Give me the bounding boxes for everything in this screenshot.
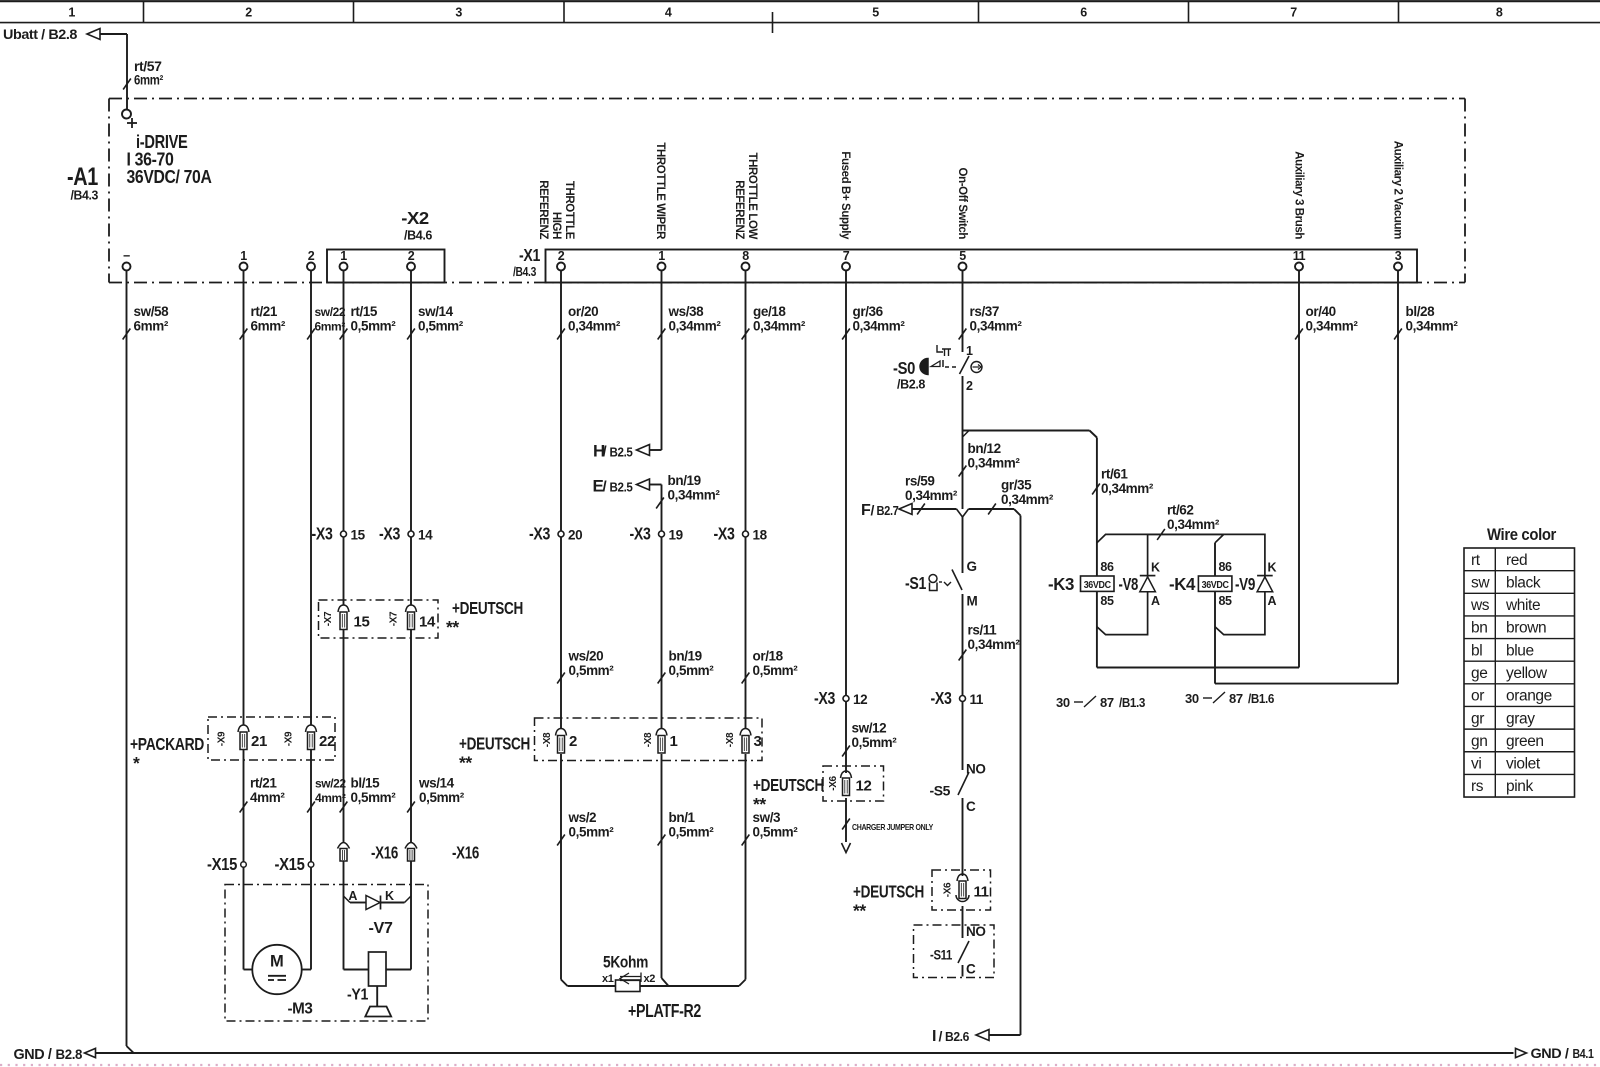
- svg-text:-X8: -X8: [725, 732, 736, 747]
- svg-text:B2.5: B2.5: [610, 481, 633, 495]
- svg-text:rt/61: rt/61: [1101, 467, 1128, 482]
- svg-text:ge: ge: [1471, 665, 1487, 682]
- svg-text:vi: vi: [1471, 756, 1481, 773]
- svg-text:-X3: -X3: [312, 524, 334, 544]
- svg-text:green: green: [1506, 733, 1544, 750]
- svg-text:-V8: -V8: [1119, 574, 1139, 594]
- svg-text:18: 18: [753, 528, 768, 543]
- svg-text:gn: gn: [1471, 733, 1487, 750]
- svg-text:3: 3: [754, 733, 762, 750]
- svg-text:M: M: [270, 953, 283, 971]
- svg-text:Auxiliary 3 Brush: Auxiliary 3 Brush: [1293, 151, 1305, 239]
- svg-text:bl/28: bl/28: [1406, 304, 1436, 319]
- svg-text:/B2.8: /B2.8: [897, 378, 925, 392]
- svg-text:-S5: -S5: [930, 784, 951, 799]
- svg-text:bn/19: bn/19: [668, 473, 701, 488]
- svg-text:-X3: -X3: [379, 524, 401, 544]
- svg-text:0,34mm²: 0,34mm²: [853, 319, 906, 334]
- svg-text:-X3: -X3: [931, 688, 953, 708]
- svg-text:1: 1: [240, 249, 247, 263]
- svg-text:sw/22: sw/22: [315, 777, 346, 791]
- svg-text:GND /: GND /: [14, 1046, 53, 1063]
- svg-text:1: 1: [670, 733, 678, 750]
- svg-text:-X9: -X9: [284, 731, 295, 746]
- svg-text:THROTTLE WIPER: THROTTLE WIPER: [654, 142, 666, 240]
- svg-text:NO: NO: [966, 762, 985, 777]
- svg-text:-S0: -S0: [893, 358, 916, 378]
- svg-text:K: K: [1151, 561, 1160, 575]
- svg-text:3: 3: [455, 6, 462, 20]
- svg-text:rs/37: rs/37: [970, 304, 1000, 319]
- svg-text:rs: rs: [1471, 778, 1484, 795]
- svg-text:I: I: [932, 1028, 936, 1045]
- svg-text:6mm²: 6mm²: [134, 73, 164, 88]
- svg-text:0,5mm²: 0,5mm²: [569, 825, 615, 840]
- svg-text:+PLATF-R2: +PLATF-R2: [628, 1001, 701, 1021]
- svg-text:rt/21: rt/21: [250, 776, 277, 791]
- svg-text:0,34mm²: 0,34mm²: [1101, 481, 1154, 496]
- svg-text:86: 86: [1219, 560, 1233, 574]
- svg-text:2: 2: [966, 379, 973, 393]
- svg-text:/: /: [939, 1028, 943, 1044]
- svg-text:-X1: -X1: [519, 245, 541, 265]
- svg-text:sw: sw: [1471, 574, 1490, 591]
- svg-text:black: black: [1506, 574, 1541, 591]
- svg-text:87: 87: [1229, 691, 1243, 706]
- svg-text:0,34mm²: 0,34mm²: [669, 319, 722, 334]
- svg-text:or/20: or/20: [568, 304, 598, 319]
- svg-text:/B4.6: /B4.6: [404, 229, 432, 243]
- svg-text:+DEUTSCH: +DEUTSCH: [753, 775, 824, 795]
- svg-text:sw/22: sw/22: [315, 305, 346, 319]
- svg-text:-Y1: -Y1: [347, 987, 368, 1004]
- svg-text:-X15: -X15: [207, 854, 238, 874]
- svg-text:ws/2: ws/2: [568, 810, 597, 825]
- svg-text:ws/20: ws/20: [568, 649, 604, 664]
- svg-text:1: 1: [340, 249, 347, 263]
- svg-text:0,5mm²: 0,5mm²: [669, 663, 715, 678]
- svg-text:bl/15: bl/15: [351, 776, 381, 791]
- svg-text:8: 8: [742, 249, 749, 263]
- svg-text:ws/14: ws/14: [418, 776, 455, 791]
- svg-text:rt/15: rt/15: [351, 304, 378, 319]
- svg-text:blue: blue: [1506, 642, 1534, 659]
- svg-text:-K4: -K4: [1169, 574, 1196, 594]
- svg-text:19: 19: [669, 528, 683, 543]
- svg-text:+DEUTSCH: +DEUTSCH: [853, 882, 924, 902]
- svg-text:G: G: [967, 559, 977, 574]
- svg-text:1: 1: [658, 249, 665, 263]
- svg-text:-X8: -X8: [643, 732, 654, 747]
- svg-text:pink: pink: [1506, 778, 1533, 795]
- svg-text:87: 87: [1100, 695, 1114, 710]
- svg-text:30: 30: [1185, 691, 1199, 706]
- svg-text:-X3: -X3: [714, 524, 736, 544]
- svg-text:85: 85: [1219, 594, 1233, 608]
- svg-text:20: 20: [568, 528, 582, 543]
- svg-text:2: 2: [408, 249, 415, 263]
- svg-text:REFERENZ: REFERENZ: [537, 180, 549, 239]
- svg-text:4mm²: 4mm²: [250, 790, 285, 805]
- svg-text:15: 15: [351, 528, 366, 543]
- svg-text:x2: x2: [644, 973, 656, 985]
- svg-text:15: 15: [354, 614, 370, 631]
- svg-text:REFERENZ: REFERENZ: [733, 180, 745, 239]
- svg-text:7: 7: [843, 249, 850, 263]
- svg-text:30: 30: [1056, 695, 1070, 710]
- svg-text:6mm²: 6mm²: [134, 319, 169, 334]
- svg-text:0,34mm²: 0,34mm²: [668, 488, 721, 503]
- svg-text:CHARGER JUMPER ONLY: CHARGER JUMPER ONLY: [852, 822, 934, 832]
- svg-text:**: **: [853, 901, 866, 921]
- svg-text:ws: ws: [1470, 597, 1490, 614]
- svg-text:0,5mm²: 0,5mm²: [351, 319, 397, 334]
- svg-text:36VDC: 36VDC: [1084, 580, 1111, 591]
- svg-text:gray: gray: [1506, 710, 1535, 727]
- svg-text:0,5mm²: 0,5mm²: [351, 790, 397, 805]
- svg-text:11: 11: [1293, 249, 1306, 263]
- svg-text:A: A: [1268, 594, 1277, 608]
- svg-text:86: 86: [1100, 560, 1114, 574]
- svg-text:gr: gr: [1471, 710, 1484, 727]
- svg-text:+DEUTSCH: +DEUTSCH: [452, 598, 523, 618]
- svg-text:0,5mm²: 0,5mm²: [753, 825, 799, 840]
- svg-text:6mm²: 6mm²: [251, 319, 286, 334]
- svg-text:0,34mm²: 0,34mm²: [1001, 492, 1054, 507]
- svg-text:/B4.3: /B4.3: [513, 265, 536, 279]
- svg-text:0,34mm²: 0,34mm²: [1167, 517, 1220, 532]
- svg-text:K: K: [1268, 561, 1277, 575]
- svg-text:HIGH: HIGH: [550, 212, 562, 239]
- svg-text:or: or: [1471, 688, 1484, 705]
- svg-text:B2.6: B2.6: [945, 1030, 969, 1044]
- svg-text:36VDC/ 70A: 36VDC/ 70A: [127, 166, 212, 187]
- svg-text:2: 2: [558, 249, 565, 263]
- svg-text:-S1: -S1: [905, 573, 927, 593]
- svg-text:/B1.6: /B1.6: [1248, 692, 1274, 706]
- svg-text:sw/14: sw/14: [418, 304, 454, 319]
- svg-text:3: 3: [1395, 249, 1402, 263]
- svg-text:-K3: -K3: [1048, 574, 1075, 594]
- svg-text:0,34mm²: 0,34mm²: [1406, 319, 1459, 334]
- svg-text:Wire color: Wire color: [1487, 526, 1557, 544]
- svg-text:F: F: [861, 502, 871, 519]
- svg-text:or/40: or/40: [1306, 304, 1336, 319]
- svg-text:-X2: -X2: [401, 208, 429, 228]
- svg-text:-A1: -A1: [67, 163, 98, 191]
- svg-text:11: 11: [974, 884, 989, 901]
- svg-text:white: white: [1505, 597, 1540, 614]
- svg-text:/B4.3: /B4.3: [71, 189, 99, 203]
- svg-text:0,5mm²: 0,5mm²: [569, 663, 615, 678]
- svg-text:*: *: [133, 753, 140, 773]
- svg-text:12: 12: [853, 692, 867, 707]
- svg-text:0,5mm²: 0,5mm²: [669, 825, 715, 840]
- svg-text:+DEUTSCH: +DEUTSCH: [459, 734, 530, 754]
- svg-text:**: **: [753, 794, 766, 814]
- svg-text:0,34mm²: 0,34mm²: [968, 637, 1021, 652]
- svg-text:orange: orange: [1506, 688, 1552, 705]
- svg-text:/: /: [871, 502, 875, 518]
- svg-text:A: A: [348, 889, 357, 903]
- svg-text:21: 21: [251, 733, 267, 750]
- svg-text:ge/18: ge/18: [753, 304, 786, 319]
- svg-text:gr/35: gr/35: [1001, 478, 1032, 493]
- svg-text:Auxiliary 2 Vacuum: Auxiliary 2 Vacuum: [1392, 141, 1404, 239]
- svg-text:/B1.3: /B1.3: [1119, 696, 1145, 710]
- svg-text:bl: bl: [1471, 642, 1482, 659]
- svg-text:0,34mm²: 0,34mm²: [970, 319, 1023, 334]
- svg-text:-V9: -V9: [1235, 574, 1256, 594]
- svg-text:-X15: -X15: [275, 854, 306, 874]
- svg-text:0,34mm²: 0,34mm²: [568, 319, 621, 334]
- svg-text:-V7: -V7: [369, 920, 394, 937]
- svg-text:7: 7: [1290, 6, 1297, 20]
- svg-text:bn/19: bn/19: [669, 649, 702, 664]
- svg-text:B4.1: B4.1: [1573, 1047, 1594, 1061]
- svg-text:rt/62: rt/62: [1167, 503, 1194, 518]
- svg-text:14: 14: [419, 614, 436, 631]
- svg-text:bn: bn: [1471, 620, 1487, 637]
- svg-text:-X7: -X7: [323, 611, 334, 626]
- svg-text:brown: brown: [1506, 620, 1546, 637]
- svg-text:yellow: yellow: [1506, 665, 1548, 682]
- svg-text:-X3: -X3: [814, 688, 836, 708]
- svg-text:rs/59: rs/59: [905, 474, 935, 489]
- svg-text:B2.7: B2.7: [877, 504, 899, 518]
- svg-text:0,5mm²: 0,5mm²: [419, 790, 465, 805]
- svg-text:+PACKARD: +PACKARD: [130, 734, 204, 754]
- svg-text:0,34mm²: 0,34mm²: [753, 319, 806, 334]
- svg-text:sw/58: sw/58: [134, 304, 170, 319]
- svg-text:5: 5: [872, 6, 879, 20]
- svg-text:-X16: -X16: [452, 843, 480, 863]
- svg-text:11: 11: [970, 692, 984, 707]
- svg-text:-M3: -M3: [288, 1001, 314, 1018]
- svg-text:6: 6: [1080, 6, 1087, 20]
- svg-text:−: −: [123, 249, 130, 263]
- svg-text:rs/11: rs/11: [968, 623, 998, 638]
- svg-text:85: 85: [1100, 594, 1114, 608]
- svg-text:0,5mm²: 0,5mm²: [753, 663, 799, 678]
- svg-text:1: 1: [966, 344, 973, 358]
- svg-text:0,5mm²: 0,5mm²: [418, 319, 464, 334]
- svg-text:sw/12: sw/12: [852, 721, 887, 736]
- svg-text:22: 22: [319, 733, 335, 750]
- svg-text:36VDC: 36VDC: [1202, 580, 1229, 591]
- svg-text:4mm²: 4mm²: [315, 791, 346, 805]
- svg-text:THROTTLE LOW: THROTTLE LOW: [746, 152, 758, 239]
- svg-text:GND /: GND /: [1531, 1045, 1570, 1061]
- svg-text:6mm²: 6mm²: [315, 320, 346, 334]
- svg-text:M: M: [967, 594, 978, 609]
- svg-text:0,5mm²: 0,5mm²: [852, 735, 898, 750]
- svg-text:-X7: -X7: [389, 611, 400, 626]
- svg-text:12: 12: [856, 778, 872, 795]
- svg-text:0,34mm²: 0,34mm²: [905, 488, 958, 503]
- svg-text:5: 5: [959, 249, 966, 263]
- svg-text:B2.5: B2.5: [610, 446, 633, 460]
- svg-text:4: 4: [665, 6, 672, 20]
- svg-text:-X9: -X9: [217, 731, 228, 746]
- svg-text:A: A: [1151, 594, 1160, 608]
- svg-text:-S11: -S11: [930, 948, 953, 963]
- svg-text:-X8: -X8: [542, 732, 553, 747]
- svg-text:-X3: -X3: [529, 524, 551, 544]
- svg-text:bn/12: bn/12: [968, 441, 1001, 456]
- svg-text:THROTTLE: THROTTLE: [563, 181, 575, 240]
- svg-text:On-Off Switch: On-Off Switch: [956, 168, 968, 240]
- svg-text:-X6: -X6: [943, 882, 954, 897]
- svg-text:K: K: [385, 889, 394, 903]
- svg-text:1: 1: [68, 6, 75, 20]
- svg-text:-X3: -X3: [630, 524, 652, 544]
- svg-text:**: **: [459, 753, 472, 773]
- svg-text:or/18: or/18: [753, 649, 784, 664]
- svg-text:violet: violet: [1506, 756, 1541, 773]
- svg-text:C: C: [966, 799, 976, 814]
- svg-text:**: **: [446, 617, 459, 637]
- svg-text:ws/38: ws/38: [668, 304, 705, 319]
- svg-text:5Kohm: 5Kohm: [603, 953, 648, 972]
- svg-text:red: red: [1506, 552, 1527, 569]
- svg-text:gr/36: gr/36: [853, 304, 884, 319]
- svg-text:Fused B+ Supply: Fused B+ Supply: [839, 151, 851, 240]
- svg-text:NO: NO: [966, 924, 985, 939]
- svg-text:Ubatt / B2.8: Ubatt / B2.8: [3, 27, 78, 42]
- svg-text:2: 2: [245, 6, 252, 20]
- svg-text:0,34mm²: 0,34mm²: [968, 456, 1021, 471]
- svg-text:rt: rt: [1471, 552, 1481, 569]
- svg-text:bn/1: bn/1: [669, 810, 696, 825]
- svg-text:-X6: -X6: [828, 775, 839, 790]
- svg-text:-X16: -X16: [371, 843, 399, 863]
- svg-text:8: 8: [1496, 6, 1503, 20]
- svg-text:B2.8: B2.8: [56, 1047, 83, 1062]
- svg-text:2: 2: [569, 733, 577, 750]
- svg-text:0,34mm²: 0,34mm²: [1306, 319, 1359, 334]
- svg-text:14: 14: [418, 528, 433, 543]
- svg-text:2: 2: [308, 249, 315, 263]
- svg-text:C: C: [966, 962, 976, 977]
- svg-text:x1: x1: [602, 973, 614, 985]
- svg-text:rt/21: rt/21: [251, 304, 278, 319]
